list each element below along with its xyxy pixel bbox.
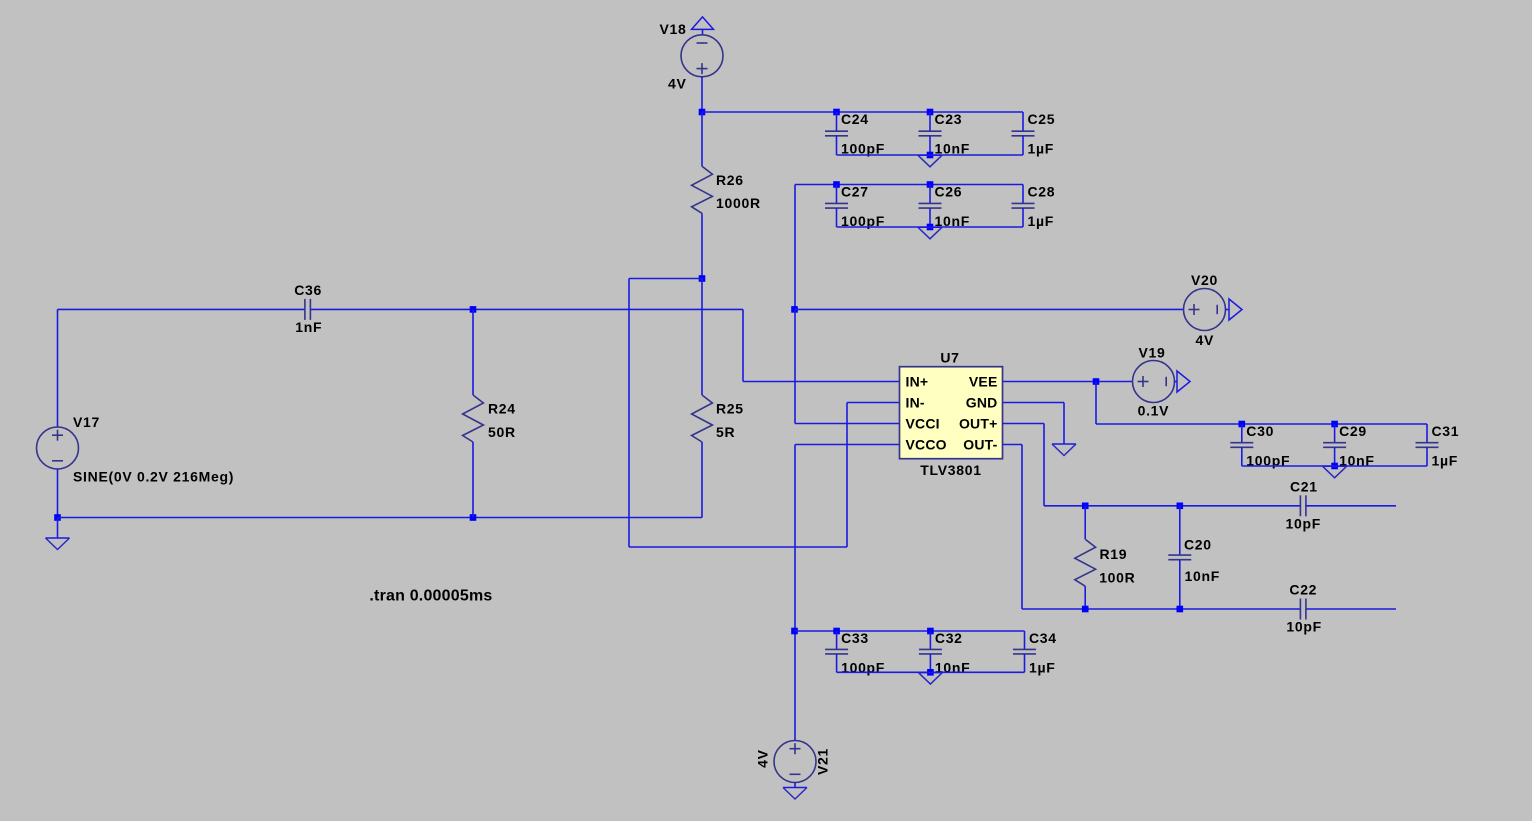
- capacitor C21: [1300, 495, 1306, 516]
- svg-text:V19: V19: [1139, 344, 1166, 360]
- wire R24 bottom lead: [472, 442, 474, 518]
- svg-text:1000R: 1000R: [716, 195, 761, 211]
- svg-text:R19: R19: [1100, 546, 1128, 562]
- svg-text:VCCO: VCCO: [906, 437, 947, 453]
- svg-text:4V: 4V: [668, 75, 687, 91]
- capacitor C34: [1013, 631, 1036, 672]
- wire OUT- rail right of C22: [1306, 608, 1396, 610]
- node V18 rail junction: [699, 109, 706, 116]
- wire V17 bottom lead: [57, 469, 59, 518]
- svg-text:IN+: IN+: [906, 374, 929, 390]
- capacitor C28: [1012, 185, 1035, 228]
- svg-text:VEE: VEE: [969, 374, 998, 390]
- node R26 bottom junction: [699, 275, 706, 282]
- svg-text:C25: C25: [1028, 111, 1056, 127]
- svg-text:1µF: 1µF: [1432, 453, 1459, 469]
- wire IN- riser: [846, 403, 848, 548]
- ground under C26: [918, 227, 942, 239]
- svg-text:C28: C28: [1028, 184, 1056, 200]
- wire bottom rail: [58, 517, 703, 519]
- wire GND drop: [1063, 403, 1065, 445]
- resistor R24: [463, 395, 484, 442]
- capacitor C36: [305, 299, 311, 320]
- wire OUT- rail left of C22: [1022, 608, 1300, 610]
- svg-text:TLV3801: TLV3801: [920, 462, 981, 478]
- svg-text:SINE(0V 0.2V 216Meg): SINE(0V 0.2V 216Meg): [73, 469, 234, 485]
- wire V18 port stub: [702, 29, 704, 35]
- capacitor C29: [1323, 424, 1346, 466]
- wire row1 top rail: [702, 111, 1023, 113]
- capacitor C25: [1012, 112, 1035, 155]
- wire R19 top lead: [1084, 506, 1086, 539]
- wire R25 top lead: [701, 279, 703, 396]
- svg-text:V18: V18: [660, 21, 687, 37]
- capacitor C27: [825, 185, 848, 228]
- op-amp U7 body: [900, 367, 1003, 459]
- port flag at V20: [1229, 299, 1242, 320]
- svg-text:V20: V20: [1191, 272, 1218, 288]
- svg-text:10pF: 10pF: [1286, 515, 1321, 531]
- node VCCI junction: [791, 306, 798, 313]
- wire IN+ to U7: [743, 381, 900, 383]
- svg-text:OUT-: OUT-: [963, 437, 997, 453]
- wire V19 port stub: [1174, 381, 1177, 383]
- wire OUT+ from U7: [1003, 423, 1045, 425]
- wire OUT+ rail left of C21: [1044, 505, 1300, 507]
- svg-text:IN-: IN-: [906, 395, 925, 411]
- wire R19 bottom lead: [1084, 586, 1086, 609]
- node R19 bottom: [1082, 606, 1089, 613]
- ground under V17: [46, 538, 70, 550]
- node R24 bottom: [470, 514, 477, 521]
- svg-text:V17: V17: [73, 414, 100, 430]
- svg-text:4V: 4V: [755, 749, 771, 768]
- svg-text:1µF: 1µF: [1029, 660, 1056, 676]
- wire V20 port stub: [1225, 309, 1229, 311]
- svg-text:10pF: 10pF: [1286, 619, 1321, 635]
- node C23 top: [927, 109, 934, 116]
- svg-text:C36: C36: [294, 282, 322, 298]
- node C20 bottom: [1177, 606, 1184, 613]
- node C24 top: [833, 109, 840, 116]
- wire row1 bottom rail: [837, 154, 1024, 156]
- wire VCCI to U7: [795, 423, 900, 425]
- svg-text:1nF: 1nF: [295, 319, 322, 335]
- wire row4 top rail: [795, 630, 1025, 632]
- svg-text:4V: 4V: [1196, 332, 1215, 348]
- node C32 bottom: [927, 669, 934, 676]
- wire V21 ground stub: [794, 782, 796, 788]
- node C20 top: [1177, 503, 1184, 510]
- node C29 bottom: [1331, 463, 1338, 470]
- svg-text:VCCI: VCCI: [906, 416, 940, 432]
- resistor R25: [692, 395, 713, 442]
- svg-text:C29: C29: [1339, 423, 1367, 439]
- svg-text:0.1V: 0.1V: [1138, 402, 1170, 418]
- svg-text:R24: R24: [488, 401, 516, 417]
- wire VEE drop: [1095, 382, 1097, 425]
- voltage source V19 symbol (plus left): [1133, 361, 1175, 403]
- svg-text:C21: C21: [1290, 478, 1318, 494]
- wire input rail left of C36: [58, 308, 305, 310]
- svg-text:1µF: 1µF: [1028, 141, 1055, 157]
- svg-text:V21: V21: [815, 748, 831, 775]
- capacitor C31: [1416, 424, 1439, 466]
- wire row4 bottom rail: [837, 671, 1025, 673]
- svg-text:.tran 0.00005ms: .tran 0.00005ms: [369, 588, 492, 605]
- wire VCCI drop: [794, 309, 796, 423]
- wire row2 left drop: [794, 185, 796, 310]
- wire R25 bottom lead: [701, 442, 703, 518]
- svg-text:U7: U7: [940, 350, 959, 366]
- wire left branch down: [628, 279, 630, 548]
- capacitor C24: [825, 112, 848, 155]
- svg-text:C26: C26: [935, 184, 963, 200]
- svg-text:C32: C32: [935, 630, 963, 646]
- node VEE junction: [1093, 378, 1100, 385]
- port flag at V18 top: [692, 17, 714, 30]
- node R24 top: [470, 306, 477, 313]
- wire V17 top lead: [57, 309, 59, 427]
- voltage source V17 symbol (plus up): [37, 427, 79, 469]
- svg-text:100R: 100R: [1099, 570, 1135, 586]
- wire VCCO down to V21: [794, 445, 796, 742]
- wire row3 top rail: [1096, 423, 1427, 425]
- ground under V21: [783, 788, 807, 800]
- node V17 ground junction: [54, 514, 61, 521]
- voltage source V20 symbol (plus left): [1184, 289, 1226, 331]
- svg-text:C22: C22: [1289, 582, 1317, 598]
- voltage source V21 symbol (plus up): [774, 741, 816, 783]
- wire OUT+ rail right of C21: [1306, 505, 1396, 507]
- node C23 bottom: [927, 152, 934, 159]
- wire OUT- from U7: [1003, 444, 1023, 446]
- wire IN- loop bottom: [629, 546, 847, 548]
- wire R24 top lead: [472, 309, 474, 395]
- svg-text:1µF: 1µF: [1028, 213, 1055, 229]
- ground under C29: [1323, 466, 1347, 478]
- capacitor C22: [1300, 599, 1306, 620]
- capacitor C26: [919, 185, 942, 228]
- wire VEE to junction: [1003, 381, 1134, 383]
- port flag at V19: [1177, 371, 1190, 392]
- ground at U7 GND: [1052, 444, 1076, 456]
- wire OUT+ drop: [1043, 424, 1045, 506]
- wire V17 ground stub: [57, 518, 59, 539]
- node C26 bottom: [927, 224, 934, 231]
- svg-text:50R: 50R: [488, 424, 516, 440]
- svg-text:C34: C34: [1029, 630, 1057, 646]
- svg-text:C33: C33: [841, 630, 869, 646]
- svg-text:5R: 5R: [716, 424, 735, 440]
- wire VCCI rail to V20: [795, 308, 1184, 310]
- svg-text:C27: C27: [841, 184, 869, 200]
- node R19 top: [1082, 503, 1089, 510]
- capacitor C33: [825, 631, 848, 672]
- svg-text:GND: GND: [966, 395, 998, 411]
- svg-text:R25: R25: [716, 401, 744, 417]
- wire VCCO to U7: [795, 444, 900, 446]
- wire IN+ drop: [742, 309, 744, 381]
- wire V18 to rail: [701, 76, 703, 112]
- svg-text:C23: C23: [935, 111, 963, 127]
- ground under C32: [918, 673, 942, 685]
- wire OUT- drop: [1021, 445, 1023, 610]
- wire junction to left branch: [629, 278, 702, 280]
- capacitor C23: [919, 112, 942, 155]
- wire GND pin: [1003, 402, 1065, 404]
- node C27 top: [833, 181, 840, 188]
- svg-text:10nF: 10nF: [1185, 568, 1220, 584]
- resistor R26: [692, 166, 713, 213]
- node C32 top: [927, 628, 934, 635]
- svg-text:C20: C20: [1184, 537, 1212, 553]
- node C26 top: [927, 181, 934, 188]
- wire row2 bottom rail: [837, 226, 1024, 228]
- node C33 top: [833, 628, 840, 635]
- node C29 top: [1331, 421, 1338, 428]
- capacitor C20: [1168, 506, 1191, 609]
- svg-text:C30: C30: [1246, 423, 1274, 439]
- capacitor C30: [1230, 424, 1253, 466]
- wire input rail right of C36: [310, 308, 743, 310]
- node C30 top: [1239, 421, 1246, 428]
- svg-text:R26: R26: [716, 172, 744, 188]
- wire row3 bottom rail: [1242, 465, 1427, 467]
- wire row2 top rail: [795, 184, 1023, 186]
- ground under C23: [918, 155, 942, 167]
- wire IN- to U7: [847, 402, 900, 404]
- wire R26 bottom lead: [701, 213, 703, 278]
- svg-text:C31: C31: [1432, 423, 1460, 439]
- node VCCO row4 junction: [791, 628, 798, 635]
- wire R26 top lead: [701, 112, 703, 166]
- resistor R19: [1075, 539, 1096, 586]
- svg-text:100pF: 100pF: [841, 660, 885, 676]
- svg-text:C24: C24: [841, 111, 869, 127]
- svg-text:OUT+: OUT+: [959, 416, 998, 432]
- capacitor C32: [919, 631, 942, 672]
- voltage source V18 symbol (minus up): [681, 35, 723, 77]
